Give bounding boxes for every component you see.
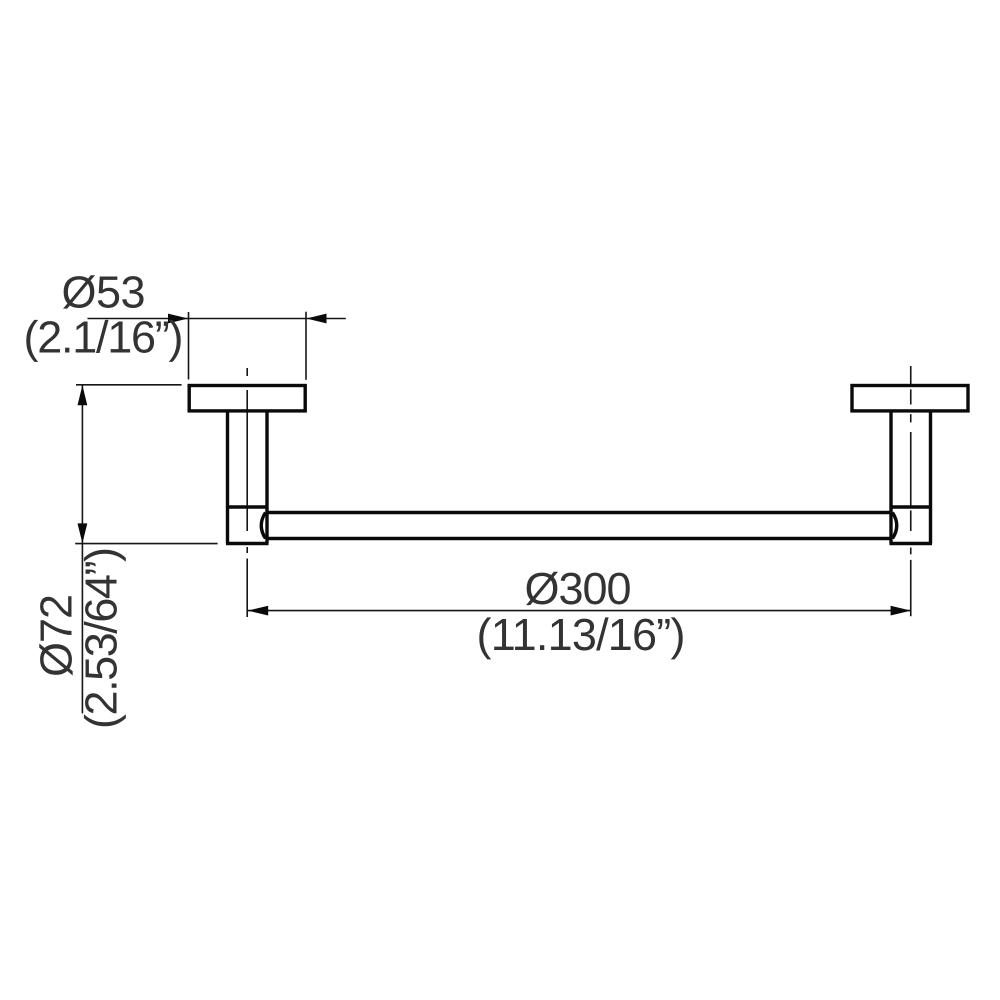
svg-text:(2.53/64”): (2.53/64”) [76,547,127,729]
dimension D300 arrow left [248,606,268,616]
bar top edge [266,511,893,514]
dimension D72 line [81,385,83,713]
right post [890,412,933,543]
svg-text:(2.1/16”): (2.1/16”) [24,312,184,363]
centerline left post [246,368,248,617]
left post collar line [226,505,269,508]
dimension D53 extension line right [305,312,307,380]
dimension D72 extension line top [76,384,182,386]
left post [226,412,269,543]
left mount flange [189,386,305,411]
svg-text:Ø72: Ø72 [31,594,82,677]
svg-text:Ø300: Ø300 [525,563,632,614]
right post collar line [890,505,933,508]
svg-text:(11.13/16”): (11.13/16”) [477,609,686,660]
dimension D72 arrow down [78,523,88,543]
dimension D53 line [88,318,346,320]
right mount flange [852,386,968,411]
dimension D53 extension line left [188,312,190,380]
bar bottom edge [266,537,893,540]
svg-text:Ø53: Ø53 [62,267,146,318]
dimension D72 extension line bottom [75,543,217,545]
dimension D300 arrow right [891,606,911,616]
bar right end cap arc [893,513,897,539]
dimension D72 arrow up [78,385,88,405]
dimension D53 arrow right [306,314,326,324]
bar left end cap arc [261,513,265,539]
centerline right post [910,366,912,616]
dimension D53 arrow left [168,314,188,324]
dimension D300 line [248,610,911,612]
